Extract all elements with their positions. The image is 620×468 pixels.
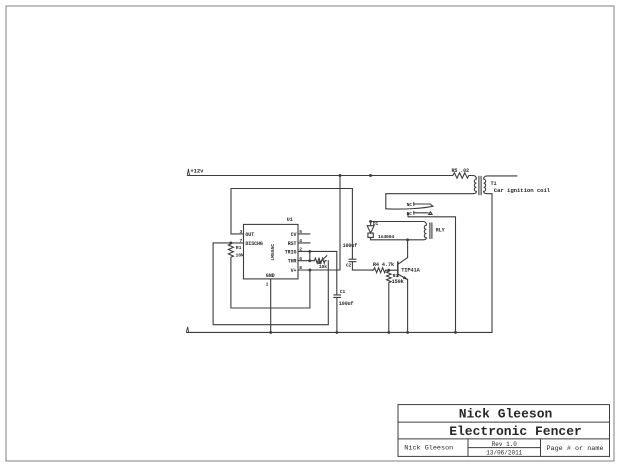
capacitor C2 — [349, 189, 356, 271]
node gnd/emitter — [406, 331, 409, 334]
node base/R3 junction — [387, 269, 390, 272]
svg-text:RST: RST — [288, 241, 297, 247]
svg-text:R5 .02: R5 .02 — [452, 168, 470, 174]
relay coil RLY — [371, 222, 432, 240]
node junction rail/C-branch — [339, 174, 342, 177]
svg-text:150k: 150k — [392, 279, 404, 285]
resistor R1 — [228, 243, 233, 260]
contact triangle marker — [429, 212, 432, 215]
resistor R5 — [452, 173, 471, 178]
svg-text:V+: V+ — [291, 268, 297, 274]
svg-text:Electronic Fencer: Electronic Fencer — [449, 424, 582, 439]
node junction rail/D1 — [369, 174, 372, 177]
power flag +12v — [187, 169, 189, 175]
resistor R4 — [372, 268, 386, 273]
svg-text:LM555C: LM555C — [270, 244, 276, 261]
wire relay common drop — [385, 194, 387, 209]
node TRIG tie — [308, 250, 311, 253]
wire TRIG net — [298, 251, 337, 295]
node gnd/R3 — [387, 331, 390, 334]
svg-text:DISCHG: DISCHG — [245, 241, 263, 247]
wire C2 to R4 — [352, 269, 372, 271]
svg-text:RLY: RLY — [436, 227, 445, 233]
relay contact NC lower bar — [414, 211, 428, 214]
svg-text:R3: R3 — [393, 273, 399, 279]
relay contact arm — [386, 206, 433, 209]
svg-text:THR: THR — [288, 259, 297, 265]
svg-text:NC: NC — [407, 211, 413, 217]
title block — [398, 405, 610, 457]
node coil/collector junction — [406, 238, 409, 241]
svg-text:TIP41A: TIP41A — [401, 267, 420, 273]
svg-text:R1: R1 — [236, 245, 242, 251]
svg-text:Nick Gleeson: Nick Gleeson — [459, 407, 553, 422]
wire OUT loop — [231, 189, 352, 234]
wire THR lead — [298, 260, 314, 262]
node gnd/C1 — [335, 331, 338, 334]
transistor Q1 TIP41A — [398, 258, 408, 333]
svg-text:OUT: OUT — [245, 232, 254, 238]
trimmer R2 wiper arrow — [319, 256, 327, 264]
svg-text:CV: CV — [291, 232, 297, 238]
svg-text:+12v: +12v — [190, 167, 204, 174]
svg-text:Page # or name: Page # or name — [546, 445, 603, 453]
svg-text:Nick Gleeson: Nick Gleeson — [404, 444, 453, 452]
svg-text:10k: 10k — [236, 253, 245, 259]
node gnd/relay contact — [454, 331, 457, 334]
svg-text:U1: U1 — [287, 217, 293, 223]
wire NC terminal to ground drop — [408, 213, 456, 332]
ground rail — [187, 331, 493, 333]
diode D1 — [367, 220, 374, 240]
svg-text:R4 4.7k: R4 4.7k — [373, 262, 394, 268]
svg-text:100uf: 100uf — [343, 243, 358, 249]
node DISCHG/R1 — [229, 241, 232, 244]
IC U1 555 — [244, 224, 299, 279]
svg-text:Car ignition coil: Car ignition coil — [494, 187, 551, 194]
transformer T1 — [386, 176, 517, 333]
wire +12v rail — [188, 175, 452, 177]
wire collector drop — [407, 240, 409, 258]
svg-text:13/06/2011: 13/06/2011 — [486, 450, 522, 457]
wire GND pin drop — [270, 279, 272, 333]
svg-text:GND: GND — [266, 273, 275, 279]
node gnd/IC — [269, 331, 272, 334]
svg-text:Rev 1.0: Rev 1.0 — [492, 441, 518, 448]
capacitor C1 — [334, 295, 341, 333]
relay contact NC top bar — [414, 204, 433, 206]
svg-text:C2: C2 — [346, 262, 352, 268]
node V+ tie — [308, 269, 311, 272]
resistor R3 — [387, 270, 392, 332]
svg-text:TRIG: TRIG — [285, 249, 297, 255]
wire V+ net — [298, 269, 340, 271]
wire R1 to V+ loop — [231, 260, 310, 309]
svg-text:100uf: 100uf — [339, 301, 354, 307]
svg-text:NC: NC — [407, 202, 413, 208]
svg-text:10k: 10k — [319, 264, 327, 270]
ground flag — [186, 327, 188, 333]
wire base lead — [386, 269, 398, 271]
svg-text:1: 1 — [266, 282, 269, 288]
wire TRIG-THR tie — [309, 251, 311, 260]
wire +12v drop to V+ — [339, 176, 341, 271]
node THR tie — [308, 259, 311, 262]
trimmer R2 — [314, 258, 327, 263]
wire DISCHG loop — [213, 243, 328, 325]
svg-text:C1: C1 — [340, 289, 346, 295]
